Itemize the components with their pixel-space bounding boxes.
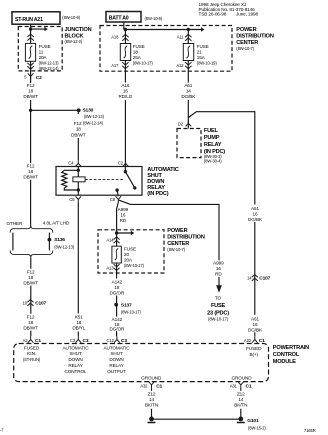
svg-text:RD: RD (215, 272, 222, 277)
svg-text:15A: 15A (197, 55, 206, 60)
svg-text:C4: C4 (68, 160, 74, 165)
svg-text:14: 14 (238, 397, 243, 402)
svg-text:(8W-12-13): (8W-12-13) (54, 244, 75, 249)
svg-text:DISTRIBUTION: DISTRIBUTION (167, 235, 205, 241)
svg-text:FUSE: FUSE (133, 44, 145, 49)
svg-text:F12: F12 (27, 83, 35, 88)
svg-text:S136: S136 (54, 237, 65, 243)
svg-text:(8W-10-17): (8W-10-17) (208, 317, 229, 322)
svg-text:C3: C3 (83, 338, 89, 344)
svg-text:7165R: 7165R (304, 428, 316, 433)
svg-text:16: 16 (123, 89, 128, 94)
svg-text:18: 18 (76, 127, 81, 132)
svg-text:A18: A18 (111, 34, 119, 39)
svg-text:AUTOMATIC: AUTOMATIC (104, 345, 131, 350)
svg-text:BATT A0: BATT A0 (109, 15, 129, 21)
svg-text:June, 1998: June, 1998 (236, 11, 258, 16)
svg-text:21: 21 (197, 49, 202, 54)
svg-text:14: 14 (247, 275, 252, 280)
svg-text:C6: C6 (69, 197, 75, 202)
svg-text:RELAY: RELAY (68, 363, 82, 368)
svg-text:C1: C1 (259, 338, 265, 344)
svg-text:4.0L A/T LHD: 4.0L A/T LHD (43, 221, 70, 226)
svg-text:A16: A16 (121, 83, 129, 88)
svg-text:FUSE: FUSE (39, 44, 51, 49)
svg-text:FUSE: FUSE (197, 44, 209, 49)
svg-text:14: 14 (149, 397, 154, 402)
svg-text:C3: C3 (70, 338, 76, 343)
svg-text:F12: F12 (27, 270, 35, 275)
svg-text:FUSED: FUSED (24, 346, 40, 351)
svg-text:(8W-15-2): (8W-15-2) (248, 425, 266, 430)
svg-text:DG/BK: DG/BK (181, 94, 196, 99)
svg-text:POWER: POWER (236, 27, 256, 33)
svg-text:DB/WT: DB/WT (71, 133, 86, 138)
svg-text:A999: A999 (213, 261, 224, 266)
svg-text:DG/BK: DG/BK (248, 217, 263, 222)
svg-text:A61: A61 (251, 206, 259, 211)
svg-text:A22: A22 (244, 338, 252, 343)
svg-text:C3: C3 (121, 338, 127, 344)
svg-text:5: 5 (24, 75, 27, 80)
svg-text:K51: K51 (75, 315, 83, 320)
svg-text:TO: TO (215, 295, 222, 300)
svg-text:(8W-10-17): (8W-10-17) (121, 310, 142, 315)
svg-text:A31: A31 (230, 384, 238, 389)
svg-text:TSB 26-06-98: TSB 26-06-98 (199, 11, 227, 16)
svg-text:25A: 25A (133, 55, 142, 60)
svg-text:FUSE: FUSE (211, 303, 226, 309)
svg-text:(8W-12-2): (8W-12-2) (65, 39, 83, 44)
svg-text:A11: A11 (177, 34, 185, 39)
svg-text:C12: C12 (107, 338, 115, 343)
svg-text:18: 18 (76, 320, 81, 325)
svg-text:POWERTRAIN: POWERTRAIN (273, 345, 309, 351)
svg-text:CONTROL: CONTROL (273, 352, 300, 358)
svg-text:(8W-10-9): (8W-10-9) (62, 15, 80, 20)
svg-text:RD: RD (120, 218, 127, 223)
svg-text:(8W-30-4): (8W-30-4) (204, 159, 222, 164)
svg-text:SHUT: SHUT (110, 351, 122, 356)
svg-text:C107: C107 (35, 301, 46, 307)
svg-text:BK/TN: BK/TN (145, 402, 158, 407)
svg-text:(8W-10-17): (8W-10-17) (133, 60, 154, 65)
svg-text:18: 18 (28, 320, 33, 325)
svg-text:RELAY: RELAY (109, 363, 123, 368)
svg-text:18: 18 (28, 89, 33, 94)
svg-text:A32: A32 (140, 384, 148, 389)
svg-text:Z12: Z12 (237, 391, 245, 396)
svg-text:A61: A61 (184, 83, 192, 88)
svg-text:A142: A142 (112, 279, 123, 284)
svg-text:DB/WT: DB/WT (23, 326, 38, 331)
svg-text:S137: S137 (121, 302, 132, 308)
svg-text:DB/WT: DB/WT (23, 281, 38, 286)
svg-text:DG/OR: DG/OR (110, 290, 125, 295)
svg-text:C1: C1 (246, 384, 252, 390)
svg-text:F12: F12 (27, 315, 35, 320)
svg-text:20A: 20A (39, 55, 48, 60)
svg-text:MODULE: MODULE (273, 359, 297, 365)
svg-text:A13: A13 (106, 266, 114, 271)
svg-text:18: 18 (133, 49, 138, 54)
svg-text:BK/TN: BK/TN (234, 402, 247, 407)
svg-text:18: 18 (28, 169, 33, 174)
svg-text:DG/BK: DG/BK (248, 327, 263, 332)
svg-text:FUSED: FUSED (246, 346, 262, 351)
svg-text:A999: A999 (118, 207, 129, 212)
svg-text:ST-RUN A21: ST-RUN A21 (15, 17, 43, 23)
svg-text:C107: C107 (259, 276, 270, 282)
svg-text:16: 16 (216, 266, 221, 271)
svg-text:(8W-12-13): (8W-12-13) (84, 114, 105, 119)
svg-text:F12: F12 (27, 164, 35, 169)
svg-text:RD/LG: RD/LG (119, 94, 133, 99)
svg-text:OUTPUT: OUTPUT (107, 369, 126, 374)
svg-text:G101: G101 (247, 418, 259, 424)
svg-text:JUNCTION: JUNCTION (65, 27, 92, 33)
svg-text:A2: A2 (23, 338, 29, 343)
svg-text:A12: A12 (176, 63, 184, 68)
svg-text:(8W-10-17): (8W-10-17) (124, 263, 145, 268)
svg-text:(ST-RUN): (ST-RUN) (23, 357, 41, 362)
svg-text:10: 10 (23, 300, 28, 305)
svg-text:(8W-12-14): (8W-12-14) (39, 66, 60, 71)
svg-text:GROUND: GROUND (141, 375, 162, 380)
svg-text:18: 18 (28, 275, 33, 280)
svg-text:A61: A61 (251, 316, 259, 321)
svg-text:PUMP: PUMP (204, 135, 220, 141)
svg-text:(8W-10-7): (8W-10-7) (236, 46, 254, 51)
svg-text:POWER: POWER (167, 228, 187, 234)
svg-text:SHUT: SHUT (69, 351, 81, 356)
svg-text:20A: 20A (124, 257, 133, 262)
svg-text:11: 11 (39, 49, 44, 54)
svg-text:AUTOMATIC: AUTOMATIC (63, 345, 90, 350)
svg-text:20: 20 (124, 252, 129, 257)
svg-text:DISTRIBUTION: DISTRIBUTION (236, 33, 274, 39)
svg-text:(8W-12-13): (8W-12-13) (39, 61, 60, 66)
svg-text:18: 18 (114, 285, 119, 290)
svg-text:16: 16 (253, 212, 258, 217)
svg-text:IGN.: IGN. (27, 351, 36, 356)
svg-text:(IN PDC): (IN PDC) (147, 191, 168, 197)
svg-text:Z12: Z12 (148, 391, 156, 396)
svg-text:RELAY: RELAY (204, 142, 222, 148)
svg-text:DOWN: DOWN (68, 357, 82, 362)
svg-text:DB/WT: DB/WT (23, 175, 38, 180)
svg-text:(8W-10-7): (8W-10-7) (167, 247, 185, 252)
svg-text:D2: D2 (178, 122, 184, 127)
svg-text:16: 16 (253, 322, 258, 327)
svg-text:(8W-10-6): (8W-10-6) (145, 16, 163, 21)
svg-text:(8W-12-14): (8W-12-14) (83, 120, 104, 125)
svg-text:GROUND: GROUND (231, 375, 252, 380)
svg-text:DB/YL: DB/YL (72, 326, 85, 331)
svg-text:F12: F12 (74, 121, 82, 126)
svg-text:CENTER: CENTER (236, 40, 258, 46)
svg-text:4-7: 4-7 (0, 428, 4, 433)
svg-text:C2: C2 (118, 160, 124, 165)
svg-text:B(+): B(+) (250, 352, 259, 357)
svg-text:S130: S130 (83, 108, 94, 114)
svg-text:16: 16 (120, 213, 125, 218)
svg-text:C1: C1 (156, 384, 162, 390)
svg-text:FUSE: FUSE (124, 246, 136, 251)
svg-text:CONTROL: CONTROL (65, 369, 88, 374)
svg-text:FUEL: FUEL (204, 128, 219, 134)
svg-text:C8: C8 (110, 197, 116, 202)
svg-text:14: 14 (186, 89, 191, 94)
svg-text:C1: C1 (35, 338, 41, 344)
svg-text:DG/OR: DG/OR (110, 326, 125, 331)
svg-text:DB/WT: DB/WT (23, 94, 38, 99)
svg-text:A17: A17 (111, 63, 119, 68)
svg-text:DOWN: DOWN (109, 357, 123, 362)
svg-text:A14: A14 (106, 237, 114, 242)
svg-text:C2: C2 (36, 75, 42, 81)
svg-text:OTHER: OTHER (7, 221, 23, 226)
svg-text:(8W-10-19): (8W-10-19) (197, 60, 218, 65)
